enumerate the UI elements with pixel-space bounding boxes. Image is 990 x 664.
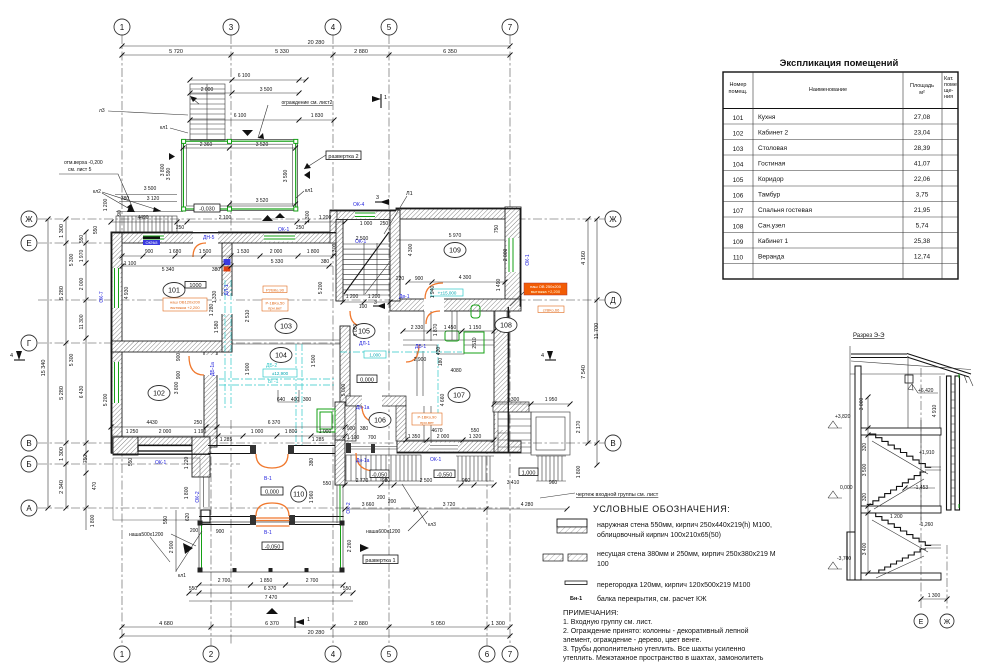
svg-text:1 970: 1 970	[79, 250, 85, 263]
svg-text:+3,820: +3,820	[835, 414, 851, 420]
svg-text:-0,030: -0,030	[199, 207, 215, 213]
svg-text:помещ.: помещ.	[729, 89, 748, 95]
svg-text:Веранда: Веранда	[758, 254, 785, 261]
svg-text:90: 90	[117, 210, 123, 216]
svg-text:900: 900	[347, 426, 356, 432]
svg-text:4 280: 4 280	[521, 502, 534, 508]
svg-text:2 000: 2 000	[437, 434, 450, 440]
svg-text:+±15,000: +±15,000	[438, 291, 457, 296]
svg-text:3 120: 3 120	[147, 196, 160, 202]
svg-text:380: 380	[321, 259, 330, 265]
svg-text:ДЛ-1: ДЛ-1	[359, 341, 370, 347]
svg-text:балка перекрытия, см. расчет К: балка перекрытия, см. расчет КЖ	[597, 595, 707, 603]
svg-text:3: 3	[376, 195, 379, 201]
svg-text:400: 400	[291, 397, 300, 403]
svg-text:300: 300	[303, 397, 312, 403]
svg-text:5 330: 5 330	[271, 259, 284, 265]
svg-text:3 660: 3 660	[362, 502, 375, 508]
svg-text:стВКо,66: стВКо,66	[543, 308, 560, 313]
svg-text:2 510: 2 510	[245, 310, 251, 323]
svg-text:-0,550: -0,550	[437, 473, 453, 479]
svg-text:1 800: 1 800	[184, 487, 190, 500]
svg-text:Ж: Ж	[25, 215, 33, 224]
svg-text:при.вет: при.вет	[420, 420, 434, 425]
svg-text:960: 960	[462, 478, 471, 484]
svg-text:620: 620	[185, 513, 191, 522]
svg-text:5: 5	[387, 650, 392, 659]
svg-text:Номер: Номер	[730, 82, 747, 88]
svg-text:380: 380	[360, 426, 369, 432]
svg-text:28,39: 28,39	[914, 145, 931, 152]
svg-text:2 170: 2 170	[576, 421, 582, 434]
svg-text:3 590: 3 590	[166, 168, 172, 181]
svg-text:Б: Б	[26, 460, 31, 469]
svg-text:2 900: 2 900	[169, 541, 175, 554]
svg-text:5 330: 5 330	[275, 49, 289, 55]
svg-text:105: 105	[733, 177, 744, 184]
svg-text:2 880: 2 880	[354, 621, 368, 627]
svg-text:750: 750	[494, 225, 500, 234]
svg-text:Г: Г	[27, 339, 32, 348]
svg-text:6: 6	[485, 650, 490, 659]
svg-text:200: 200	[377, 495, 386, 501]
svg-text:1 800: 1 800	[576, 466, 582, 479]
svg-text:Ж: Ж	[944, 619, 951, 626]
svg-text:±12,900: ±12,900	[272, 371, 289, 376]
svg-text:3: 3	[374, 300, 377, 306]
svg-text:6 100: 6 100	[234, 113, 247, 119]
svg-text:4 160: 4 160	[581, 251, 587, 265]
svg-text:2 360: 2 360	[200, 142, 213, 148]
svg-text:380: 380	[309, 458, 315, 467]
svg-text:5 280: 5 280	[59, 286, 65, 300]
svg-text:1,000: 1,000	[522, 471, 536, 477]
svg-text:2: 2	[209, 650, 214, 659]
svg-text:Сан.узел: Сан.узел	[758, 223, 785, 230]
svg-text:наша600х1200: наша600х1200	[366, 529, 401, 535]
svg-text:2 000: 2 000	[503, 249, 509, 262]
svg-text:1 000: 1 000	[251, 429, 264, 435]
svg-text:Площадь: Площадь	[910, 83, 934, 89]
svg-text:21,95: 21,95	[914, 207, 931, 214]
svg-text:3: 3	[229, 23, 234, 32]
svg-text:900: 900	[176, 353, 182, 362]
svg-text:1: 1	[120, 650, 125, 659]
svg-text:м²: м²	[919, 90, 925, 96]
svg-text:1 150: 1 150	[469, 325, 482, 331]
svg-text:2,900: 2,900	[414, 357, 427, 363]
svg-text:ОК-4: ОК-4	[353, 202, 364, 208]
svg-text:102: 102	[733, 131, 744, 138]
svg-text:чертеж входной группы см. лист: чертеж входной группы см. лист	[576, 491, 659, 498]
svg-text:1 800: 1 800	[285, 429, 298, 435]
svg-text:1 200: 1 200	[319, 215, 332, 221]
svg-text:элемент, ограждение - дерево,: элемент, ограждение - дерево, цвет венге…	[563, 637, 701, 644]
svg-text:4: 4	[10, 353, 13, 359]
svg-text:20 280: 20 280	[308, 630, 325, 636]
svg-text:-3,700: -3,700	[837, 556, 851, 562]
svg-text:1,000: 1,000	[369, 353, 381, 358]
svg-text:250: 250	[380, 221, 389, 227]
svg-text:900: 900	[176, 371, 182, 380]
svg-text:109: 109	[733, 239, 744, 246]
svg-text:см. лист 5: см. лист 5	[68, 167, 92, 173]
svg-text:кл1: кл1	[305, 188, 313, 194]
svg-text:108: 108	[500, 323, 512, 330]
svg-text:2510: 2510	[472, 337, 478, 348]
svg-text:2 340: 2 340	[59, 480, 65, 494]
svg-text:5 050: 5 050	[431, 621, 445, 627]
svg-text:5 000: 5 000	[341, 384, 347, 397]
svg-text:6 370: 6 370	[268, 420, 281, 426]
svg-text:л3: л3	[99, 108, 105, 114]
svg-text:1 300: 1 300	[305, 211, 311, 224]
svg-text:Спальня гостевая: Спальня гостевая	[758, 207, 813, 214]
svg-text:6 370: 6 370	[265, 621, 279, 627]
svg-text:6 370: 6 370	[264, 586, 277, 592]
svg-text:1: 1	[120, 23, 125, 32]
svg-text:4490: 4490	[137, 215, 148, 221]
svg-text:3,75: 3,75	[916, 192, 929, 199]
svg-text:2 500: 2 500	[420, 478, 433, 484]
svg-text:1 300: 1 300	[928, 593, 941, 599]
svg-text:1 190: 1 190	[194, 429, 207, 435]
svg-text:отм.верха -0,200: отм.верха -0,200	[64, 160, 103, 166]
svg-text:ния: ния	[944, 94, 953, 100]
svg-text:550: 550	[189, 586, 198, 592]
svg-text:Гостиная: Гостиная	[758, 161, 786, 168]
svg-text:1 200: 1 200	[103, 199, 109, 212]
svg-text:250: 250	[194, 420, 203, 426]
svg-text:1 500: 1 500	[311, 355, 317, 368]
svg-text:640: 640	[277, 397, 286, 403]
svg-text:1 285: 1 285	[312, 437, 325, 443]
svg-text:2 700: 2 700	[306, 578, 319, 584]
svg-text:380: 380	[121, 196, 130, 202]
svg-text:5 970: 5 970	[449, 233, 462, 239]
svg-text:ОК-2: ОК-2	[346, 502, 352, 513]
svg-text:2. Ограждение принято: колонны: 2. Ограждение принято: колонны - декорат…	[563, 627, 749, 635]
svg-text:1 100: 1 100	[124, 261, 137, 267]
svg-text:4 680: 4 680	[159, 621, 173, 627]
svg-text:ДН-5: ДН-5	[203, 235, 215, 241]
svg-text:при.вет: при.вет	[268, 306, 282, 311]
svg-text:12,74: 12,74	[914, 254, 931, 261]
svg-text:1. Входную группу см. лист.: 1. Входную группу см. лист.	[563, 619, 652, 626]
svg-text:108: 108	[733, 224, 744, 231]
svg-text:900: 900	[145, 249, 154, 255]
svg-text:1 800: 1 800	[90, 515, 96, 528]
svg-text:0,000: 0,000	[840, 485, 853, 491]
svg-text:развертка 2: развертка 2	[328, 154, 358, 160]
svg-text:104: 104	[275, 353, 287, 360]
svg-text:ДБ-1а: ДБ-1а	[210, 362, 216, 376]
svg-text:5 720: 5 720	[169, 49, 183, 55]
svg-text:5 300: 5 300	[69, 354, 75, 367]
svg-text:200: 200	[190, 528, 199, 534]
svg-text:2 260: 2 260	[347, 540, 353, 553]
svg-text:2 500: 2 500	[356, 236, 369, 242]
svg-text:БГ-1: БГ-1	[268, 379, 279, 385]
svg-text:15 340: 15 340	[41, 360, 47, 377]
svg-text:кл1: кл1	[160, 125, 168, 131]
svg-text:0,000: 0,000	[265, 490, 279, 496]
svg-text:кл2: кл2	[93, 189, 101, 195]
svg-text:1 350: 1 350	[408, 434, 421, 440]
svg-text:Бн-1: Бн-1	[570, 596, 582, 602]
svg-text:101: 101	[168, 288, 180, 295]
svg-text:107: 107	[453, 393, 465, 400]
svg-text:-0,050: -0,050	[265, 545, 281, 551]
svg-text:3 500: 3 500	[862, 464, 868, 477]
svg-text:Д: Д	[610, 296, 616, 305]
svg-text:20 280: 20 280	[308, 40, 325, 46]
svg-text:ДЛ-1: ДЛ-1	[224, 284, 230, 295]
svg-text:3 500: 3 500	[260, 87, 273, 93]
svg-text:Р-1ВКо,90: Р-1ВКо,90	[417, 415, 437, 420]
svg-text:1 680: 1 680	[169, 249, 182, 255]
svg-text:960: 960	[549, 480, 558, 486]
svg-text:облицовочный кирпич 100х210х65: облицовочный кирпич 100х210х65(50)	[597, 531, 721, 539]
svg-text:6 430: 6 430	[79, 386, 85, 399]
svg-text:кл1: кл1	[178, 573, 186, 579]
svg-text:1 900: 1 900	[245, 363, 251, 376]
svg-text:420: 420	[436, 347, 442, 356]
svg-text:наша500х1200: наша500х1200	[129, 532, 164, 538]
svg-text:1 000: 1 000	[319, 429, 332, 435]
svg-text:11 700: 11 700	[594, 323, 600, 339]
svg-text:1 200: 1 200	[890, 514, 903, 520]
svg-text:несущая стена 380мм и 250мм, к: несущая стена 380мм и 250мм, кирпич 250х…	[597, 551, 776, 558]
svg-text:109: 109	[449, 248, 461, 255]
svg-text:3 400: 3 400	[862, 543, 868, 556]
svg-text:103: 103	[280, 324, 292, 331]
svg-text:2 770: 2 770	[356, 478, 369, 484]
svg-text:ОК-1: ОК-1	[155, 460, 166, 466]
svg-text:7: 7	[508, 23, 513, 32]
svg-text:470: 470	[92, 482, 98, 491]
svg-text:В-1: В-1	[264, 476, 272, 482]
svg-text:ДБ-2: ДБ-2	[266, 363, 277, 369]
svg-text:550: 550	[323, 481, 332, 487]
svg-text:103: 103	[733, 146, 744, 153]
svg-text:22,06: 22,06	[914, 176, 931, 183]
svg-text:5: 5	[387, 23, 392, 32]
svg-text:РУВКо,90: РУВКо,90	[266, 288, 285, 293]
svg-text:1 200: 1 200	[346, 294, 359, 300]
svg-text:7: 7	[508, 650, 513, 659]
svg-text:3 520: 3 520	[256, 198, 269, 204]
svg-text:550: 550	[343, 586, 352, 592]
svg-text:380: 380	[212, 267, 221, 273]
svg-text:В: В	[26, 439, 31, 448]
svg-text:В-1: В-1	[264, 530, 272, 536]
svg-text:5 280: 5 280	[59, 386, 65, 400]
svg-text:3 520: 3 520	[256, 142, 269, 148]
svg-text:6 100: 6 100	[238, 73, 251, 79]
svg-text:3 410: 3 410	[507, 480, 520, 486]
svg-text:1: 1	[307, 617, 310, 623]
svg-text:1 940: 1 940	[430, 286, 436, 299]
svg-text:кл3: кл3	[428, 522, 436, 528]
svg-text:900: 900	[415, 276, 424, 282]
svg-text:250: 250	[176, 225, 185, 231]
svg-text:107: 107	[733, 208, 744, 215]
svg-text:4: 4	[331, 23, 336, 32]
svg-text:Кабинет 1: Кабинет 1	[758, 237, 789, 245]
svg-text:200: 200	[388, 499, 397, 505]
svg-text:2 000: 2 000	[201, 87, 214, 93]
svg-text:4: 4	[331, 650, 336, 659]
svg-text:1 100: 1 100	[347, 435, 360, 441]
svg-text:1 500: 1 500	[199, 249, 212, 255]
svg-text:1 490: 1 490	[496, 279, 502, 292]
svg-text:106: 106	[374, 418, 386, 425]
svg-text:Тамбур: Тамбур	[758, 191, 780, 199]
svg-text:вытяжка +2,200: вытяжка +2,200	[531, 289, 561, 294]
svg-text:5 340: 5 340	[162, 267, 175, 273]
svg-text:Дн-1а: Дн-1а	[356, 458, 370, 464]
svg-text:ОК-1: ОК-1	[525, 254, 531, 265]
svg-text:1 300: 1 300	[491, 621, 505, 627]
svg-text:5 200: 5 200	[318, 282, 324, 295]
svg-text:4430: 4430	[146, 420, 157, 426]
svg-text:102: 102	[153, 391, 165, 398]
svg-text:3 720: 3 720	[443, 502, 456, 508]
svg-text:Наименование: Наименование	[809, 87, 847, 93]
svg-text:3 800: 3 800	[174, 382, 180, 395]
svg-text:900: 900	[216, 529, 225, 535]
svg-text:11 300: 11 300	[79, 314, 85, 329]
svg-text:утеплить. Межэтажное пространс: утеплить. Межэтажное пространство в шахт…	[563, 655, 764, 662]
svg-text:Столовая: Столовая	[758, 145, 788, 152]
svg-text:ОК-7: ОК-7	[99, 291, 105, 302]
svg-text:Кабинет 2: Кабинет 2	[758, 129, 789, 137]
svg-text:2 700: 2 700	[218, 578, 231, 584]
svg-text:1: 1	[384, 95, 387, 101]
svg-text:перегородка 120мм, кирпич 120х: перегородка 120мм, кирпич 120х500х219 М1…	[597, 582, 750, 589]
svg-text:23,04: 23,04	[914, 130, 931, 137]
svg-text:УСЛОВНЫЕ ОБОЗНАЧЕНИЯ:: УСЛОВНЫЕ ОБОЗНАЧЕНИЯ:	[593, 504, 730, 514]
svg-text:3 590: 3 590	[283, 170, 289, 183]
svg-text:27,08: 27,08	[914, 114, 931, 121]
svg-text:+1,910: +1,910	[919, 450, 935, 456]
svg-text:1 285: 1 285	[220, 437, 233, 443]
svg-text:4 300: 4 300	[459, 275, 472, 281]
svg-text:Е: Е	[919, 619, 924, 626]
svg-text:ОК-1: ОК-1	[278, 227, 289, 233]
svg-text:250: 250	[296, 225, 305, 231]
svg-text:700: 700	[368, 435, 377, 441]
svg-text:А: А	[26, 504, 32, 513]
svg-text:1 960: 1 960	[309, 491, 315, 504]
svg-text:6 050: 6 050	[353, 324, 359, 337]
svg-text:2 000: 2 000	[159, 429, 172, 435]
svg-text:110: 110	[293, 492, 304, 499]
svg-text:Дн-1а: Дн-1а	[356, 405, 370, 411]
svg-text:6 350: 6 350	[443, 49, 457, 55]
svg-text:Дв-1: Дв-1	[399, 294, 410, 300]
svg-text:1000: 1000	[189, 283, 201, 289]
svg-text:2 330: 2 330	[411, 325, 424, 331]
svg-text:4080: 4080	[450, 368, 461, 374]
svg-text:наш ОВ120х200: наш ОВ120х200	[170, 300, 201, 305]
svg-text:3 800: 3 800	[160, 164, 166, 177]
svg-text:41,07: 41,07	[914, 161, 931, 168]
svg-text:1 450: 1 450	[444, 325, 457, 331]
svg-text:980: 980	[382, 478, 391, 484]
svg-text:1 220: 1 220	[184, 457, 190, 470]
svg-text:В: В	[610, 439, 615, 448]
svg-text:0,000: 0,000	[360, 378, 374, 384]
svg-text:220: 220	[396, 276, 405, 282]
svg-text:5 300: 5 300	[69, 254, 75, 267]
svg-text:5,74: 5,74	[916, 223, 929, 230]
svg-text:1 320: 1 320	[469, 434, 482, 440]
svg-text:5 200: 5 200	[103, 394, 109, 407]
svg-text:1 830: 1 830	[311, 113, 324, 119]
svg-text:3 500: 3 500	[144, 186, 157, 192]
svg-text:Разрез Э-Э: Разрез Э-Э	[853, 333, 885, 339]
svg-text:3. Трубы дополнительно утеплит: 3. Трубы дополнительно утеплить. Все шах…	[563, 645, 745, 653]
svg-text:4 910: 4 910	[932, 405, 938, 418]
svg-text:ПРИМЕЧАНИЯ:: ПРИМЕЧАНИЯ:	[563, 608, 618, 617]
svg-text:550: 550	[163, 516, 169, 525]
svg-text:750: 750	[83, 455, 89, 464]
svg-text:7 470: 7 470	[265, 595, 278, 601]
svg-text:100: 100	[597, 561, 609, 568]
svg-text:110: 110	[733, 255, 744, 262]
svg-text:Кухня: Кухня	[758, 114, 776, 121]
svg-text:4 300: 4 300	[408, 244, 414, 257]
svg-text:1 280: 1 280	[209, 304, 215, 317]
svg-text:25,38: 25,38	[914, 238, 931, 245]
svg-text:наружная стена 550мм, кирпич 2: наружная стена 550мм, кирпич 250х440х219…	[597, 522, 772, 529]
svg-text:320: 320	[862, 493, 868, 502]
svg-text:2 100: 2 100	[219, 215, 232, 221]
svg-text:1 850: 1 850	[260, 578, 273, 584]
svg-text:Ж: Ж	[609, 215, 617, 224]
svg-text:1 300: 1 300	[59, 224, 65, 238]
svg-text:ограждение см. лист2: ограждение см. лист2	[282, 100, 333, 106]
svg-text:4: 4	[541, 353, 544, 359]
svg-text:320: 320	[862, 443, 868, 452]
svg-text:3 000: 3 000	[859, 398, 865, 411]
svg-text:вытяжка +2,200: вытяжка +2,200	[170, 305, 200, 310]
svg-text:180: 180	[438, 358, 444, 367]
svg-text:550: 550	[128, 458, 134, 467]
svg-text:ОК-2: ОК-2	[195, 491, 201, 502]
svg-text:100: 100	[359, 304, 368, 310]
svg-text:4 930: 4 930	[124, 287, 130, 300]
svg-text:1 800: 1 800	[307, 249, 320, 255]
svg-text:ОК№3: ОК№3	[146, 240, 159, 245]
svg-text:4 660: 4 660	[440, 394, 446, 407]
svg-text:1 000: 1 000	[360, 221, 373, 227]
svg-text:3 300: 3 300	[332, 244, 338, 257]
svg-text:2 000: 2 000	[270, 249, 283, 255]
svg-text:1 580: 1 580	[214, 321, 220, 334]
svg-text:2 000: 2 000	[79, 278, 85, 291]
svg-text:1 300: 1 300	[59, 447, 65, 461]
svg-text:105: 105	[358, 329, 370, 336]
svg-text:1 950: 1 950	[545, 397, 558, 403]
svg-text:ДБ-1: ДБ-1	[415, 344, 426, 350]
svg-text:550: 550	[79, 235, 85, 244]
svg-text:1 300: 1 300	[507, 397, 520, 403]
svg-text:1 870: 1 870	[433, 324, 439, 337]
svg-text:Экспликация помещений: Экспликация помещений	[780, 58, 899, 69]
